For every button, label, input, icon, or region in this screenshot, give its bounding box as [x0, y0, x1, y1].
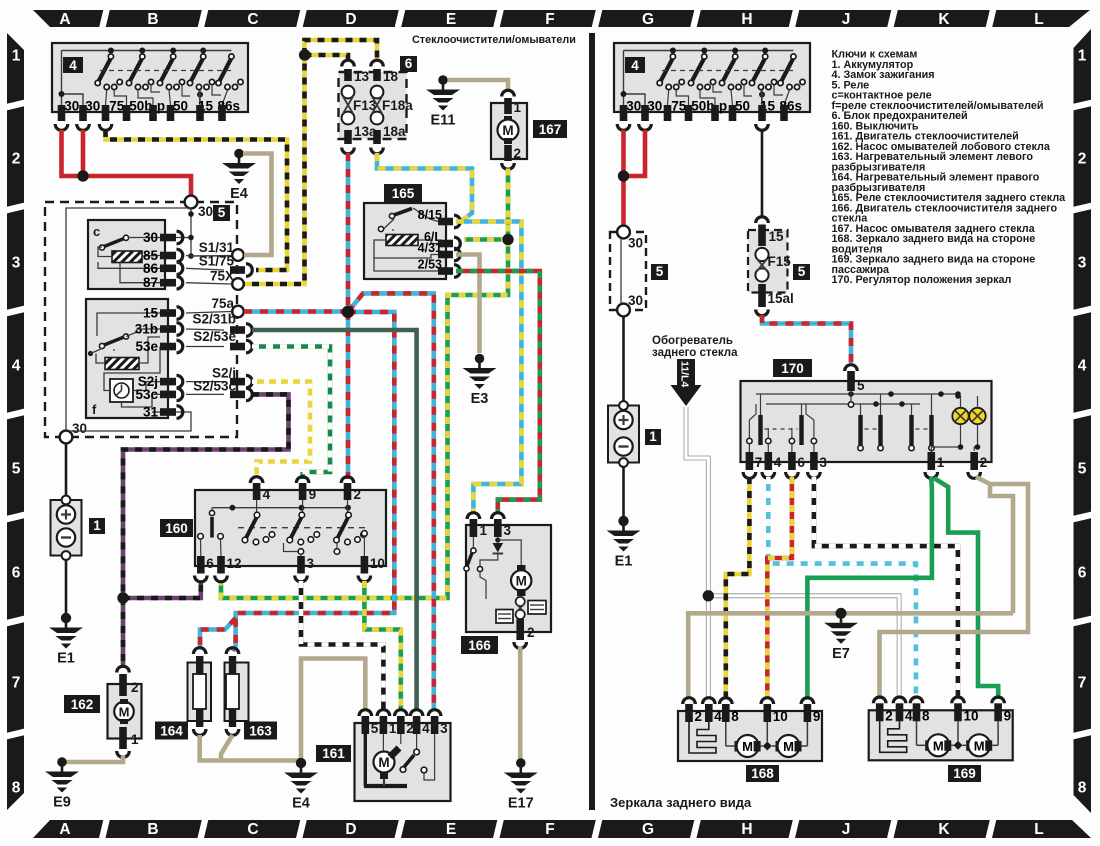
wire cyan/red from fuse 13a down to junction	[346, 153, 351, 309]
wire cyan/white 170 pin 4 to mirror 169 pin 8	[768, 477, 916, 699]
node green/yellow junction at 6/L	[502, 234, 513, 245]
svg-text:168: 168	[751, 766, 774, 781]
frame left bar	[7, 33, 24, 810]
svg-text:164: 164	[160, 724, 183, 739]
wire green/white S2/53e to switch 160 pin 9	[252, 347, 330, 480]
svg-text:31b: 31b	[135, 322, 158, 337]
svg-text:5: 5	[656, 264, 664, 279]
svg-text:11/L4: 11/L4	[679, 361, 691, 387]
wire tan E11 to pump 167 pin 1	[448, 80, 508, 90]
wire black battery right to ground E1	[622, 467, 625, 521]
pin 1 of control 170	[928, 452, 936, 470]
svg-text:1: 1	[514, 100, 522, 115]
relay c (contact relay)	[88, 220, 165, 289]
svg-text:E9: E9	[53, 795, 71, 811]
svg-text:F15: F15	[768, 254, 792, 269]
wire yellow/black 170 pin 7 to mirror 168 pin 8	[726, 477, 750, 699]
wire black relay plate 30 to battery	[65, 444, 68, 498]
wire cyan/red 75a to junction	[244, 309, 345, 314]
svg-text:7: 7	[12, 675, 21, 692]
svg-text:F18a: F18a	[382, 98, 413, 113]
svg-text:18a: 18a	[383, 124, 406, 139]
connector pin 30 of ignition switch left	[55, 124, 68, 130]
mirror position control 170	[773, 359, 812, 377]
node yellow/black junction	[299, 49, 310, 60]
wiper switch 160	[160, 519, 193, 537]
connector below pump 167 pin 2	[502, 163, 515, 169]
wire dark green S2/31b to motor 161 pin 4	[252, 330, 417, 710]
svg-text:D: D	[345, 821, 356, 838]
pin 9 top of switch 160	[296, 477, 309, 483]
svg-text:160: 160	[165, 521, 188, 536]
ground E7	[824, 609, 858, 644]
ground E3	[463, 354, 497, 389]
fuse F18a	[373, 69, 381, 81]
wire red junction down to fuse holder 30	[621, 176, 626, 226]
svg-text:1: 1	[93, 518, 101, 533]
connector below fuse 18a	[371, 148, 384, 154]
svg-text:A: A	[59, 11, 70, 28]
fuse F13	[344, 69, 352, 81]
svg-text:6: 6	[797, 455, 805, 470]
svg-text:E: E	[446, 821, 456, 838]
wire yellow/black node to fuse 18	[305, 40, 378, 60]
ground E9	[45, 757, 79, 792]
svg-text:M: M	[502, 123, 513, 138]
wire purple/black junction to switch 160 pin 6	[123, 581, 201, 598]
svg-text:86: 86	[143, 261, 159, 276]
svg-text:f: f	[92, 402, 97, 417]
svg-text:4: 4	[12, 358, 21, 375]
svg-text:F: F	[545, 11, 554, 28]
pin 6 bottom of switch 160	[197, 556, 205, 574]
svg-text:2: 2	[406, 721, 414, 736]
svg-text:Обогреватель: Обогреватель	[652, 335, 733, 347]
ground E1	[607, 516, 641, 551]
node main cyan/red junction	[342, 306, 354, 318]
wire cyan/yellow from fuse 18a to relay 165 8/15	[377, 153, 472, 222]
svg-text:4: 4	[1078, 358, 1087, 375]
connector above fuse 18	[371, 60, 384, 66]
wire cyan/red junction diagonal to motor 161 pin 3	[348, 293, 434, 710]
svg-text:K: K	[938, 11, 950, 28]
rear wiper relay 165	[384, 184, 422, 202]
timer symbol inside relay f	[110, 379, 133, 402]
svg-text:M: M	[378, 755, 389, 770]
pin 2 of control 170	[970, 452, 978, 470]
wire white from arrow 11/L4	[686, 407, 708, 699]
wire tan heater 163 to ground E4	[221, 735, 233, 761]
frame top bar	[33, 10, 1090, 27]
wire green/yellow switch 160 pin 10 to motor 161 pin 2	[364, 581, 400, 710]
svg-text:H: H	[741, 11, 752, 28]
svg-text:15: 15	[769, 229, 785, 244]
ignition switch 4 (right)	[614, 43, 810, 121]
fuse box 6 (dashed)	[339, 72, 407, 139]
svg-text:7: 7	[755, 455, 763, 470]
motor 161 internals	[364, 734, 367, 786]
svg-text:15al: 15al	[768, 291, 794, 306]
svg-text:E: E	[446, 11, 456, 28]
wire tan heater 164 to ground E4	[200, 735, 301, 761]
svg-text:E3: E3	[471, 391, 489, 407]
svg-text:6: 6	[405, 56, 413, 71]
svg-text:3: 3	[1078, 255, 1087, 272]
svg-text:G: G	[642, 11, 654, 28]
relay f (wiper/washer relay)	[86, 299, 168, 418]
svg-text:J: J	[842, 821, 851, 838]
svg-text:E1: E1	[615, 554, 633, 570]
relay plate 5 (dashed box)	[45, 202, 237, 437]
wire black battery to ground E1	[65, 560, 68, 618]
svg-text:18: 18	[383, 69, 399, 84]
pin 2 of motor 161	[395, 710, 408, 716]
wire yellow/black node to fuse 13	[305, 55, 349, 60]
svg-text:170. Регулятор положения зерка: 170. Регулятор положения зеркал	[832, 274, 1012, 286]
svg-text:1: 1	[389, 721, 397, 736]
node 30 bottom	[617, 304, 630, 317]
wire black ignition 15 down to fuse F15	[761, 130, 764, 216]
wire black/white switch 160 pin 3 to motor 161 pin 1	[301, 581, 383, 710]
svg-text:87: 87	[143, 275, 158, 290]
ground E11	[426, 75, 460, 110]
svg-text:D: D	[345, 11, 356, 28]
svg-text:13: 13	[354, 69, 370, 84]
svg-text:S1/75: S1/75	[199, 254, 235, 269]
ignition switch 4 (left)	[52, 43, 248, 121]
control 170 internals	[756, 393, 958, 395]
node purple junction	[117, 592, 128, 603]
svg-text:30: 30	[198, 204, 213, 219]
divider line between circuit sections	[589, 33, 595, 810]
svg-text:B: B	[147, 11, 158, 28]
wire white core	[686, 407, 708, 699]
pin 4 of motor 161	[410, 710, 423, 716]
wire tan motor 166 to ground E17	[518, 647, 523, 763]
svg-text:2: 2	[1078, 151, 1087, 168]
node 30 bottom of relay plate	[60, 431, 73, 444]
svg-text:5: 5	[857, 378, 865, 393]
battery 1 (right)	[608, 406, 639, 463]
wire tan pump 162 to ground E9	[62, 756, 123, 762]
svg-text:K: K	[938, 821, 950, 838]
switch 160 internals	[212, 507, 348, 509]
svg-text:E4: E4	[230, 186, 248, 202]
pin 10 bottom of switch 160	[361, 556, 369, 574]
svg-text:31: 31	[143, 405, 159, 420]
ground E4	[284, 758, 318, 793]
svg-text:162: 162	[71, 697, 94, 712]
svg-text:6: 6	[1078, 565, 1087, 582]
windshield washer pump 162	[117, 666, 130, 672]
svg-text:1: 1	[649, 429, 657, 444]
svg-text:G: G	[642, 821, 654, 838]
svg-text:2: 2	[354, 487, 362, 502]
wire green/yellow junction down to switch 160 pin 12	[221, 240, 508, 599]
svg-text:8: 8	[1078, 780, 1087, 797]
svg-text:2: 2	[514, 146, 522, 161]
ground E4	[222, 149, 256, 184]
svg-text:30: 30	[143, 230, 158, 245]
svg-text:S2/53e: S2/53e	[193, 329, 236, 344]
wire white core 2	[708, 596, 899, 699]
svg-text:30: 30	[628, 236, 643, 251]
wire yellow/black 75X to fuse box node	[238, 55, 305, 284]
connector pin 30b of ignition switch right	[639, 124, 652, 130]
fuse F15	[755, 248, 768, 261]
pin 3 of motor 166	[492, 513, 505, 519]
svg-text:c: c	[93, 224, 100, 239]
driver side mirror 168	[678, 704, 822, 761]
resistor blocks inside motor 166	[496, 610, 513, 624]
node tan at ground E7	[836, 608, 847, 619]
svg-text:C: C	[247, 821, 258, 838]
wire cyan/red junction down to switch 160 pin 2	[346, 312, 351, 479]
wire tan E4 to S1/31	[243, 154, 272, 256]
pin 6 of control 170	[788, 452, 796, 470]
svg-text:3: 3	[12, 255, 21, 272]
node junction red wires left	[77, 170, 88, 181]
svg-text:M: M	[119, 705, 130, 720]
svg-text:Стеклоочистители/омыватели: Стеклоочистители/омыватели	[412, 34, 576, 46]
pin 3 of motor 161	[428, 710, 441, 716]
connector pin 75 of ignition switch left	[99, 124, 112, 130]
svg-text:S2/31b: S2/31b	[192, 312, 236, 327]
wire green 170 pin 1 to mirror 168 pin 9	[807, 477, 932, 699]
wire red to terminal 30 of relay plate	[83, 176, 191, 198]
node 30 top	[617, 226, 630, 239]
svg-text:12: 12	[227, 556, 242, 571]
wire red/green relay 165 2/53 to motor 166 pin 3	[456, 271, 540, 513]
ground E1	[49, 613, 83, 648]
svg-text:B: B	[147, 821, 158, 838]
svg-text:6: 6	[206, 556, 214, 571]
svg-text:S2/53c: S2/53c	[193, 379, 236, 394]
node junction red wires right	[618, 170, 629, 181]
svg-text:M: M	[516, 574, 527, 589]
indicator lamps inside control 170	[952, 408, 968, 424]
svg-text:161: 161	[322, 746, 345, 761]
svg-text:J: J	[842, 11, 851, 28]
rear wiper motor 166	[461, 636, 498, 654]
svg-text:167: 167	[539, 122, 562, 137]
battery 1 (left)	[51, 500, 82, 556]
connector below fuse F15	[756, 310, 769, 316]
svg-text:169: 169	[953, 766, 976, 781]
connector pin 30b of ignition switch left	[77, 124, 90, 130]
wire tan 170 pin 2 to mirror 169 pin 2	[880, 477, 1029, 699]
pin 4 of control 170	[765, 452, 773, 470]
svg-text:3: 3	[819, 455, 827, 470]
svg-text:10: 10	[370, 556, 385, 571]
svg-text:заднего стекла: заднего стекла	[652, 347, 738, 359]
passenger side mirror 169	[869, 703, 1013, 760]
wire white junction to mirror 169 pin 4	[708, 596, 899, 699]
connector pin 30 of ignition switch right	[617, 124, 630, 130]
wire green/yellow pump 167 to junction	[506, 169, 511, 240]
node white wire junction	[703, 590, 714, 601]
svg-text:170: 170	[781, 361, 804, 376]
svg-text:8: 8	[12, 780, 21, 797]
fuse holder 5 (dashed box right)	[610, 232, 646, 310]
svg-text:1: 1	[480, 523, 488, 538]
pin 1 of motor 166	[467, 513, 480, 519]
svg-text:4: 4	[422, 721, 430, 736]
wire red from pin 30b right	[626, 130, 645, 176]
pin 4 top of switch 160	[250, 477, 263, 483]
pin 7 of control 170	[746, 452, 754, 470]
frame right bar	[1074, 29, 1092, 813]
svg-text:5: 5	[218, 205, 226, 220]
svg-text:E11: E11	[431, 113, 456, 129]
wire tan 170 pin 2 branch to ground E7 bus	[990, 484, 1013, 613]
wire red battery feed from pin 30 left	[62, 130, 81, 176]
wire tan E4 up to motor 161 pin 5	[301, 659, 365, 759]
svg-text:1: 1	[131, 732, 139, 747]
pin 5 of control 170	[845, 365, 858, 371]
node tan junction at E4	[296, 758, 306, 768]
svg-text:5: 5	[371, 721, 379, 736]
svg-text:H: H	[741, 821, 752, 838]
svg-text:1: 1	[937, 455, 945, 470]
wire tan ground bus E7 to mirror 168 pin 2	[688, 613, 1013, 699]
svg-text:53c: 53c	[135, 387, 158, 402]
frame bottom bar	[33, 820, 1091, 838]
wire cyan/red junction to heater feed	[233, 312, 394, 651]
arrow symbol 11/L4 rear window heater feed	[671, 359, 702, 406]
wiper motor 161	[316, 745, 351, 762]
svg-text:5: 5	[12, 461, 21, 478]
connector above pump 167 pin 1	[502, 90, 515, 96]
wire tan relay 165 4/31 to ground E3	[456, 255, 480, 354]
svg-text:L: L	[1034, 11, 1043, 28]
wire red battery feed pin 30 right	[621, 130, 626, 176]
connector pin 15 of ignition switch right	[756, 124, 769, 130]
wire yellow S2/j to switch 160 pin 4	[252, 382, 310, 479]
wire purple/black S2/53c to washer pump 162	[123, 394, 289, 598]
wire purple/black junction down to pump 162 pin 2	[121, 598, 126, 668]
wire cyan/red branch to heater 164	[200, 618, 236, 648]
node junction dots overlay	[77, 170, 88, 181]
wire black fuse holder to battery right	[622, 316, 625, 402]
rear washer pump 167	[491, 103, 527, 159]
fuse F15 box (dashed)	[748, 230, 788, 293]
wire yellow/black from pin 75 to S1/75	[106, 130, 288, 270]
wire cyan/yellow relay 165 8/15 to wiper motor 166 pin 1	[456, 222, 521, 514]
svg-text:3: 3	[307, 556, 315, 571]
wire cyan/red F15 to mirror control 170 pin 5	[762, 315, 851, 363]
wire green 170 pin 1 to mirror 169 pin 9	[934, 478, 998, 699]
svg-text:C: C	[247, 11, 258, 28]
pin 1 of motor 161	[377, 710, 390, 716]
svg-text:E1: E1	[57, 651, 75, 667]
svg-text:Зеркала заднего вида: Зеркала заднего вида	[610, 795, 752, 810]
connector above fuse 13	[342, 60, 355, 66]
wire internal 30 bus of relay plate	[66, 208, 191, 431]
wire green/yellow junction to relay 165 6/L	[464, 237, 508, 242]
svg-text:15: 15	[143, 306, 159, 321]
svg-text:2: 2	[980, 455, 988, 470]
pin 3 bottom of switch 160	[297, 556, 305, 574]
svg-text:3: 3	[440, 721, 448, 736]
node 30 top of relay plate	[185, 196, 198, 209]
connector above fuse F15	[756, 217, 769, 223]
wire black/white 170 pin 3 to mirror 169 pin 10	[814, 477, 958, 699]
svg-text:E7: E7	[832, 646, 850, 662]
svg-text:165: 165	[392, 186, 415, 201]
svg-text:6: 6	[12, 565, 21, 582]
svg-text:E17: E17	[508, 796, 534, 812]
svg-text:75X: 75X	[210, 269, 234, 284]
connector below fuse 13a	[342, 148, 355, 154]
motor 166 internals	[495, 537, 500, 542]
svg-text:5: 5	[1078, 461, 1087, 478]
pin 3 of control 170	[810, 452, 818, 470]
svg-text:30: 30	[628, 293, 643, 308]
ground E17	[504, 758, 538, 793]
svg-text:A: A	[59, 821, 70, 838]
wire red/yellow 170 pin 6 to mirror 168 pin 10	[767, 477, 792, 699]
pin 2 of motor 166	[516, 619, 524, 640]
svg-text:2: 2	[12, 151, 21, 168]
svg-text:7: 7	[1078, 675, 1087, 692]
svg-text:166: 166	[468, 638, 491, 653]
svg-text:4: 4	[774, 455, 782, 470]
svg-text:2: 2	[131, 680, 139, 695]
pin 12 bottom of switch 160	[217, 556, 225, 574]
svg-text:30: 30	[72, 421, 87, 436]
washer jet heater 163	[226, 648, 239, 654]
svg-text:2: 2	[527, 625, 535, 640]
svg-text:E4: E4	[292, 796, 310, 812]
svg-text:1: 1	[12, 48, 21, 65]
svg-text:F: F	[545, 821, 554, 838]
svg-text:53e: 53e	[135, 339, 158, 354]
svg-text:5: 5	[798, 264, 806, 279]
washer jet heater 164	[193, 648, 206, 654]
svg-text:1: 1	[1078, 48, 1087, 65]
pin 2 top of switch 160	[341, 477, 354, 483]
svg-text:3: 3	[504, 523, 512, 538]
pin 5 of motor 161	[359, 710, 372, 716]
svg-text:L: L	[1034, 821, 1043, 838]
wire red from pin 30b left	[81, 130, 86, 176]
svg-text:75a: 75a	[211, 296, 234, 311]
svg-text:9: 9	[309, 487, 317, 502]
svg-text:163: 163	[249, 724, 272, 739]
svg-text:4: 4	[263, 487, 271, 502]
